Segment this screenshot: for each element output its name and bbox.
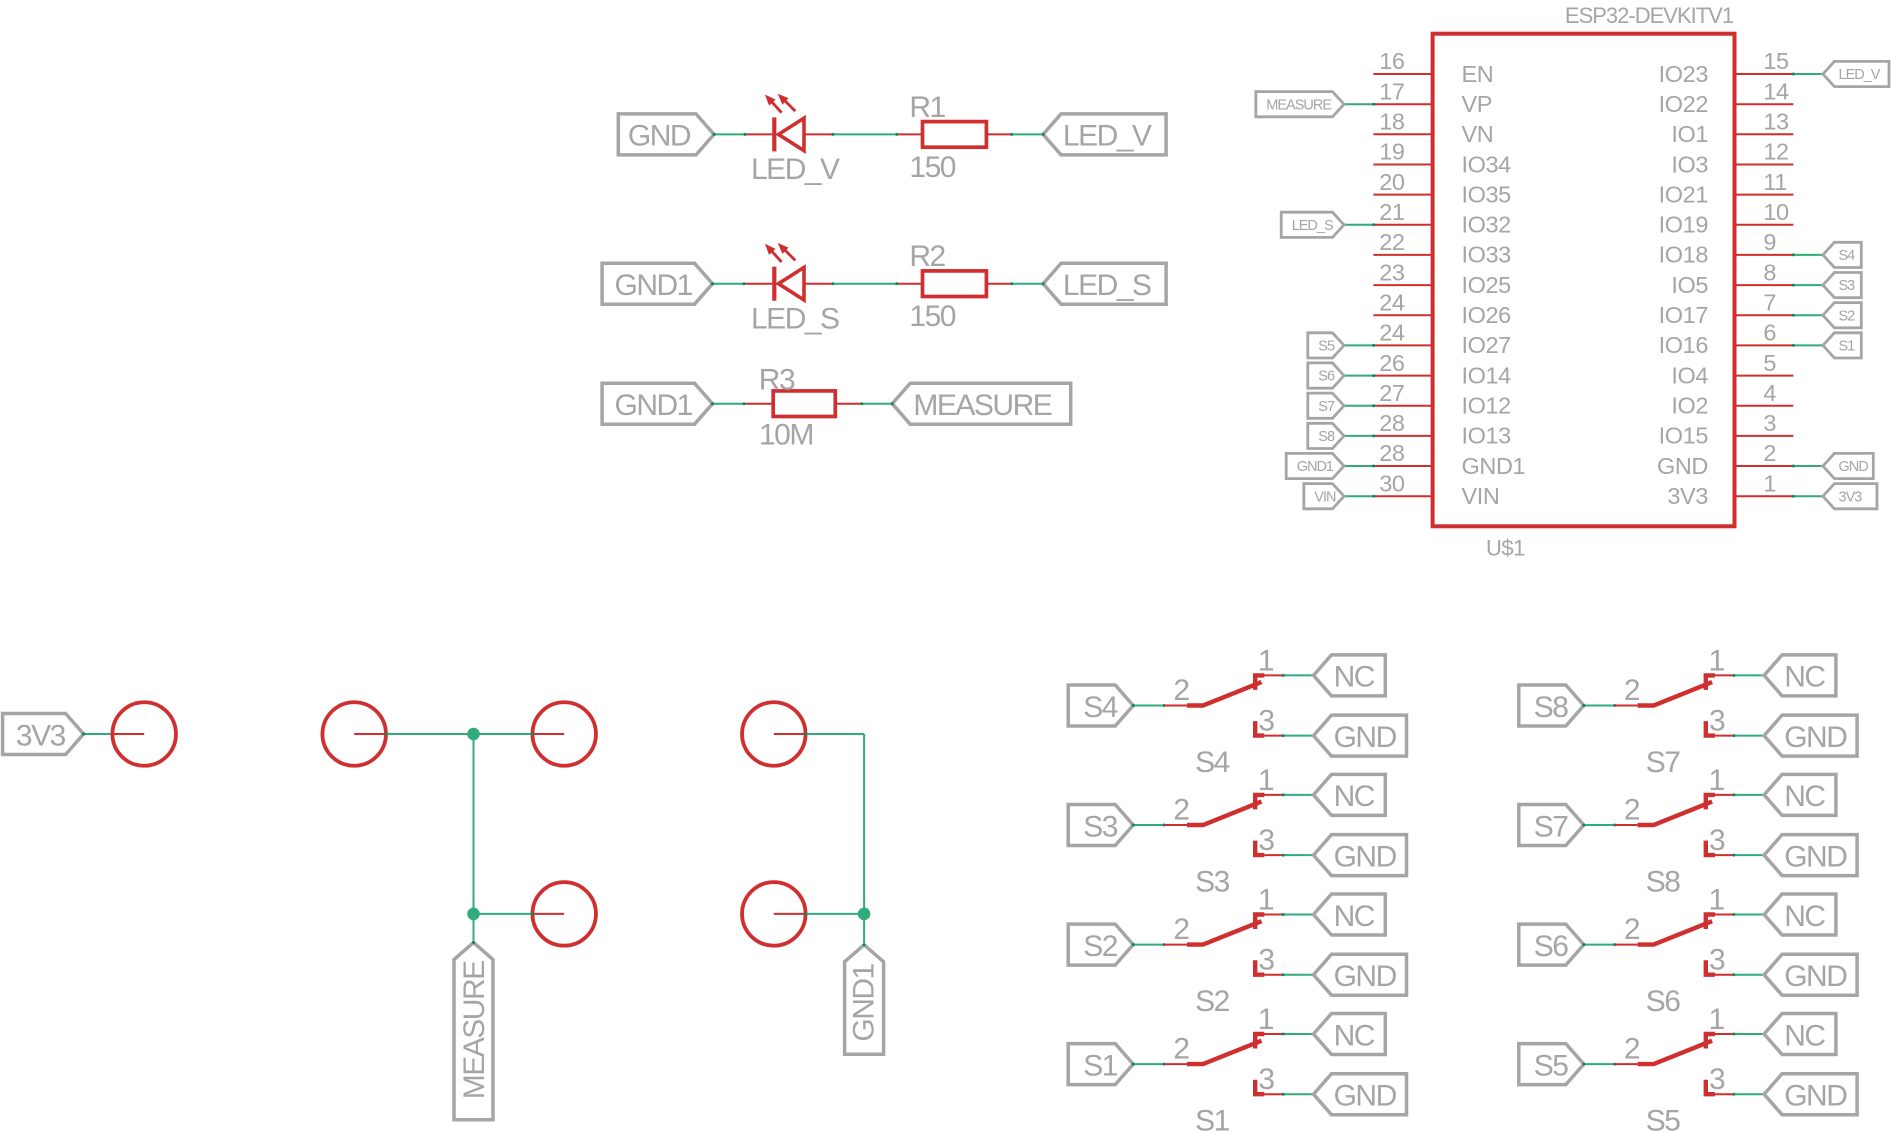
svg-text:GND: GND <box>1784 1080 1847 1113</box>
svg-text:S3: S3 <box>1839 278 1856 294</box>
svg-text:4: 4 <box>1763 380 1776 406</box>
svg-text:28: 28 <box>1379 440 1405 466</box>
svg-text:VP: VP <box>1462 91 1493 117</box>
svg-text:2: 2 <box>1624 1033 1640 1066</box>
svg-text:3: 3 <box>1258 824 1274 857</box>
svg-text:S1: S1 <box>1195 1105 1230 1133</box>
svg-text:1: 1 <box>1709 764 1725 797</box>
svg-text:LED_S: LED_S <box>1063 269 1151 302</box>
svg-text:R2: R2 <box>909 240 945 273</box>
svg-text:R3: R3 <box>759 364 795 397</box>
svg-text:1: 1 <box>1709 884 1725 917</box>
svg-text:S7: S7 <box>1646 746 1681 779</box>
svg-text:150: 150 <box>909 151 955 184</box>
svg-text:IO4: IO4 <box>1671 362 1708 388</box>
svg-text:S2: S2 <box>1083 930 1118 963</box>
svg-text:S7: S7 <box>1534 810 1569 843</box>
svg-text:2: 2 <box>1173 913 1189 946</box>
svg-text:LED_S: LED_S <box>751 302 839 335</box>
svg-text:IO2: IO2 <box>1671 393 1708 419</box>
svg-text:IO32: IO32 <box>1462 212 1511 238</box>
svg-text:IO21: IO21 <box>1659 181 1708 207</box>
svg-text:NC: NC <box>1784 661 1825 694</box>
svg-text:IO17: IO17 <box>1659 302 1708 328</box>
svg-text:GND: GND <box>1334 840 1397 873</box>
svg-text:3: 3 <box>1709 1063 1725 1096</box>
svg-text:NC: NC <box>1784 780 1825 813</box>
svg-text:IO14: IO14 <box>1462 362 1512 388</box>
svg-text:IO26: IO26 <box>1462 302 1512 328</box>
svg-text:2: 2 <box>1173 794 1189 827</box>
svg-text:IO27: IO27 <box>1462 332 1511 358</box>
svg-text:16: 16 <box>1379 48 1405 74</box>
svg-text:S8: S8 <box>1318 429 1335 445</box>
svg-text:3: 3 <box>1763 410 1776 436</box>
svg-text:GND: GND <box>1839 459 1869 475</box>
svg-text:S6: S6 <box>1534 930 1569 963</box>
svg-text:MEASURE: MEASURE <box>913 389 1051 422</box>
svg-text:11: 11 <box>1763 169 1787 195</box>
svg-text:S1: S1 <box>1839 339 1856 355</box>
svg-text:1: 1 <box>1258 884 1274 917</box>
svg-text:18: 18 <box>1379 109 1405 135</box>
svg-text:IO23: IO23 <box>1659 61 1709 87</box>
svg-text:IO34: IO34 <box>1462 151 1512 177</box>
svg-text:1: 1 <box>1258 644 1274 677</box>
svg-text:NC: NC <box>1334 780 1375 813</box>
svg-text:10M: 10M <box>759 419 813 452</box>
svg-text:NC: NC <box>1784 900 1825 933</box>
svg-text:13: 13 <box>1763 109 1789 135</box>
svg-text:14: 14 <box>1763 78 1789 104</box>
svg-text:S3: S3 <box>1083 810 1118 843</box>
svg-text:S3: S3 <box>1195 866 1230 899</box>
svg-text:S4: S4 <box>1839 248 1856 264</box>
svg-text:S6: S6 <box>1646 985 1681 1018</box>
svg-text:S7: S7 <box>1318 399 1335 415</box>
svg-text:U$1: U$1 <box>1486 536 1525 561</box>
svg-text:GND: GND <box>1334 960 1397 993</box>
svg-text:19: 19 <box>1379 139 1404 165</box>
svg-text:S8: S8 <box>1646 866 1681 899</box>
svg-text:S4: S4 <box>1195 746 1230 779</box>
svg-text:2: 2 <box>1173 674 1189 707</box>
svg-text:VIN: VIN <box>1314 489 1336 505</box>
svg-text:3: 3 <box>1709 944 1725 977</box>
svg-text:3V3: 3V3 <box>16 719 66 752</box>
svg-text:IO35: IO35 <box>1462 181 1512 207</box>
svg-text:3: 3 <box>1258 1063 1274 1096</box>
svg-text:8: 8 <box>1763 259 1776 285</box>
svg-text:IO12: IO12 <box>1462 393 1511 419</box>
svg-text:9: 9 <box>1763 229 1776 255</box>
svg-text:IO18: IO18 <box>1659 242 1709 268</box>
svg-text:EN: EN <box>1462 61 1494 87</box>
svg-text:R1: R1 <box>909 91 945 124</box>
svg-text:LED_S: LED_S <box>1292 218 1333 234</box>
svg-text:GND: GND <box>1784 721 1847 754</box>
svg-text:15: 15 <box>1763 48 1789 74</box>
svg-text:VN: VN <box>1462 121 1494 147</box>
svg-text:GND1: GND1 <box>1462 453 1526 479</box>
svg-text:GND: GND <box>1334 721 1397 754</box>
svg-text:IO3: IO3 <box>1671 151 1708 177</box>
svg-text:3: 3 <box>1258 944 1274 977</box>
svg-text:GND1: GND1 <box>848 963 881 1041</box>
svg-text:ESP32-DEVKITV1: ESP32-DEVKITV1 <box>1565 3 1734 28</box>
svg-text:3V3: 3V3 <box>1839 489 1863 505</box>
svg-text:1: 1 <box>1709 1003 1725 1036</box>
svg-text:GND1: GND1 <box>1297 459 1334 475</box>
svg-text:GND: GND <box>1334 1080 1397 1113</box>
svg-text:IO5: IO5 <box>1671 272 1708 298</box>
svg-text:1: 1 <box>1258 764 1274 797</box>
svg-text:28: 28 <box>1379 410 1405 436</box>
svg-text:IO15: IO15 <box>1659 423 1709 449</box>
svg-text:NC: NC <box>1334 661 1375 694</box>
svg-text:24: 24 <box>1379 289 1405 315</box>
svg-text:1: 1 <box>1258 1003 1274 1036</box>
svg-text:3: 3 <box>1258 705 1274 738</box>
svg-text:24: 24 <box>1379 320 1405 346</box>
svg-text:LED_V: LED_V <box>751 153 840 186</box>
svg-text:3V3: 3V3 <box>1667 483 1708 509</box>
svg-text:NC: NC <box>1784 1019 1825 1052</box>
svg-text:23: 23 <box>1379 259 1405 285</box>
svg-text:S8: S8 <box>1534 691 1569 724</box>
svg-text:IO1: IO1 <box>1671 121 1708 147</box>
svg-text:NC: NC <box>1334 1019 1375 1052</box>
svg-text:LED_V: LED_V <box>1063 120 1152 153</box>
svg-text:12: 12 <box>1763 139 1788 165</box>
svg-text:NC: NC <box>1334 900 1375 933</box>
svg-text:GND: GND <box>1784 840 1847 873</box>
svg-text:IO19: IO19 <box>1659 212 1708 238</box>
svg-text:S4: S4 <box>1083 691 1118 724</box>
svg-text:S6: S6 <box>1318 369 1335 385</box>
svg-text:3: 3 <box>1709 824 1725 857</box>
svg-text:GND: GND <box>1657 453 1708 479</box>
svg-text:1: 1 <box>1763 470 1776 496</box>
svg-text:GND: GND <box>628 120 691 153</box>
svg-text:GND1: GND1 <box>615 389 693 422</box>
svg-text:150: 150 <box>909 300 955 333</box>
svg-text:5: 5 <box>1763 350 1776 376</box>
svg-text:3: 3 <box>1709 705 1725 738</box>
svg-text:IO25: IO25 <box>1462 272 1512 298</box>
svg-text:S5: S5 <box>1318 339 1335 355</box>
svg-text:1: 1 <box>1709 644 1725 677</box>
svg-text:2: 2 <box>1624 913 1640 946</box>
svg-text:22: 22 <box>1379 229 1404 255</box>
svg-text:2: 2 <box>1624 674 1640 707</box>
svg-text:S1: S1 <box>1083 1049 1118 1082</box>
svg-text:6: 6 <box>1763 320 1776 346</box>
svg-text:GND: GND <box>1784 960 1847 993</box>
svg-text:S2: S2 <box>1195 985 1230 1018</box>
svg-text:30: 30 <box>1379 470 1405 496</box>
svg-text:2: 2 <box>1624 794 1640 827</box>
svg-text:IO16: IO16 <box>1659 332 1709 358</box>
svg-text:IO13: IO13 <box>1462 423 1512 449</box>
svg-text:MEASURE: MEASURE <box>458 961 491 1099</box>
svg-text:S5: S5 <box>1534 1049 1569 1082</box>
svg-text:S2: S2 <box>1839 308 1856 324</box>
svg-text:17: 17 <box>1379 78 1404 104</box>
svg-text:MEASURE: MEASURE <box>1266 97 1332 113</box>
svg-text:27: 27 <box>1379 380 1404 406</box>
svg-text:26: 26 <box>1379 350 1405 376</box>
svg-text:IO33: IO33 <box>1462 242 1512 268</box>
svg-text:GND1: GND1 <box>615 269 693 302</box>
svg-text:10: 10 <box>1763 199 1789 225</box>
svg-text:IO22: IO22 <box>1659 91 1708 117</box>
svg-text:7: 7 <box>1763 289 1776 315</box>
svg-text:2: 2 <box>1763 440 1776 466</box>
svg-text:VIN: VIN <box>1462 483 1500 509</box>
svg-text:LED_V: LED_V <box>1839 67 1881 83</box>
svg-text:20: 20 <box>1379 169 1405 195</box>
svg-text:21: 21 <box>1379 199 1404 225</box>
svg-text:2: 2 <box>1173 1033 1189 1066</box>
svg-text:S5: S5 <box>1646 1105 1681 1133</box>
